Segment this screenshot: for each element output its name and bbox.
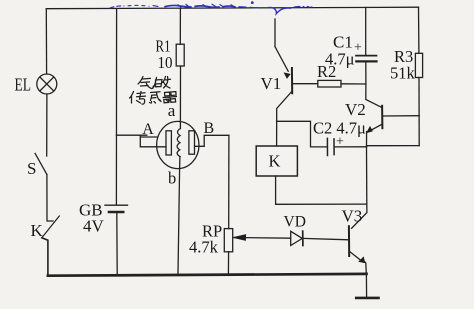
wire emitter node to R3 leg [367, 145, 420, 147]
resistor R1 [179, 8, 181, 44]
qi2 [163, 92, 177, 103]
svg-text:+: + [354, 41, 362, 56]
capacitor C1 [365, 8, 367, 56]
potentiometer RP [224, 229, 232, 252]
relay K box [256, 146, 297, 176]
switch K [42, 216, 60, 238]
wire V2 emitter down [366, 147, 368, 204]
wire electrode B step [195, 135, 229, 146]
wire EL to S [46, 94, 48, 156]
label gas sensor chinese [130, 77, 177, 105]
wire electrode A step [116, 135, 166, 147]
svg-text:a: a [168, 101, 176, 120]
switch S [35, 153, 47, 174]
svg-text:10: 10 [158, 53, 173, 72]
svg-text:51k: 51k [390, 64, 416, 83]
wire K to bottom [42, 238, 48, 276]
wire S to K [47, 175, 53, 222]
sensor heater coil [177, 129, 180, 157]
svg-text:V1: V1 [261, 74, 282, 93]
svg-text:S: S [27, 159, 36, 178]
capacitor C2 [277, 121, 327, 147]
transistor V2 [366, 84, 382, 107]
wire VD to V3 base [303, 238, 349, 239]
gan [150, 92, 162, 103]
diode VD [234, 237, 291, 240]
sensor electrode left plate [166, 131, 171, 155]
sensor electrode right plate [189, 131, 195, 154]
svg-text:B: B [204, 120, 215, 137]
battery GB [105, 204, 128, 206]
lamp EL [37, 74, 57, 94]
svg-text:4.7μ: 4.7μ [325, 50, 355, 69]
svg-text:+: + [336, 135, 344, 150]
wire K box to V3 collector node [276, 176, 367, 204]
chuan [130, 92, 146, 105]
wire V1 base to R2 [293, 83, 318, 85]
wire R3 to V2 collector node [418, 78, 420, 146]
svg-text:b: b [168, 169, 176, 188]
wire left bus upper [45, 9, 47, 74]
wire B to RP [228, 135, 230, 228]
wire bottom rail [48, 274, 367, 276]
svg-text:K: K [269, 152, 281, 171]
transistor V3 [352, 204, 367, 228]
svg-text:4.7k: 4.7k [189, 238, 219, 257]
wire R2 to node [341, 83, 366, 85]
ground [365, 274, 367, 297]
svg-text:V3: V3 [342, 207, 363, 226]
wire sensor lead b [178, 157, 180, 274]
wire RP to bottom [227, 252, 229, 275]
resistor R3 [418, 7, 420, 53]
wire top rail [46, 7, 418, 9]
svg-text:VD: VD [284, 214, 306, 231]
qi [138, 77, 153, 89]
transistor V1 [274, 19, 276, 47]
wire bus2 top [115, 9, 117, 205]
blue annotation squiggle [110, 1, 312, 13]
min [153, 77, 171, 89]
svg-text:EL: EL [15, 75, 32, 95]
svg-text:V2: V2 [345, 100, 366, 119]
svg-text:4V: 4V [83, 217, 105, 236]
resistor R2 [318, 80, 341, 87]
gas sensor tube [157, 121, 199, 168]
wire battery to bottom [116, 213, 118, 274]
